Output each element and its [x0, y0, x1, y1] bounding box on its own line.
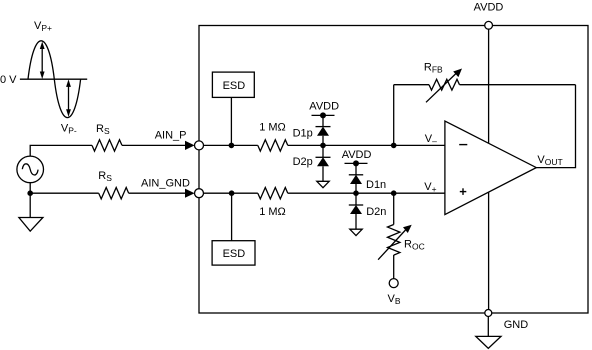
svg-text:VOUT: VOUT [537, 154, 562, 167]
ESD block 2 [212, 241, 255, 265]
amplitude arrow VP+ [40, 42, 45, 80]
wire AIN_P inside [204, 144, 258, 146]
svg-text:AIN_P: AIN_P [155, 130, 187, 142]
diode D1p [316, 127, 331, 136]
wire 1M to opamp V- [288, 144, 445, 146]
junction feedback V- [391, 143, 397, 149]
wire 1M to opamp V+ [288, 192, 445, 194]
ESD block 1 [212, 72, 254, 97]
op-amp minus sign [459, 144, 467, 146]
waveform axis [20, 78, 87, 80]
op-amp U1 [445, 121, 536, 215]
junction Dp [320, 143, 326, 149]
svg-text:RS: RS [96, 123, 110, 136]
junction AVDD Dn [353, 160, 359, 166]
AVDD rail Dn [345, 162, 368, 164]
resistor RS top [92, 140, 122, 151]
svg-text:D2n: D2n [366, 206, 386, 218]
source V1 [17, 156, 44, 183]
wire D1n to junction [355, 184, 357, 205]
wire Dp stem top [322, 115, 324, 126]
svg-text:V+: V+ [424, 181, 436, 194]
diode D2n [349, 205, 363, 214]
resistor RFB [429, 79, 460, 90]
junction ESD2 [229, 190, 235, 196]
wire ROC stem bottom [393, 255, 395, 279]
wire RS to AIN_GND [129, 192, 186, 194]
diode D2p [316, 157, 331, 166]
svg-text:D1p: D1p [293, 128, 313, 140]
node VB [389, 279, 398, 288]
wire ESD1 stem [230, 97, 232, 145]
IC boundary box [199, 26, 588, 314]
resistor 1 Mohm bottom [258, 188, 288, 199]
node AVDD [485, 21, 493, 29]
wire feedback top right [460, 84, 576, 86]
junction AVDD Dp [320, 112, 326, 118]
svg-text:VP+: VP+ [34, 20, 52, 33]
svg-text:V–: V– [425, 133, 437, 146]
junction ESD1 [229, 143, 235, 149]
wire D2n down [355, 214, 357, 229]
svg-text:AVDD: AVDD [309, 101, 339, 113]
diode D1n [349, 175, 363, 184]
arrow RFB [426, 69, 462, 103]
wire source top [30, 145, 92, 156]
node AIN_GND [195, 189, 204, 198]
arrow into AIN_GND [185, 189, 195, 198]
svg-text:AVDD: AVDD [342, 149, 372, 161]
wire source to RS bottom [30, 183, 99, 194]
ground arrow Dp [317, 181, 329, 187]
arrow ROC [378, 225, 412, 260]
svg-text:AVDD: AVDD [474, 2, 504, 14]
svg-text:VB: VB [388, 293, 401, 306]
svg-text:0 V: 0 V [0, 74, 17, 86]
wire feedback top left [394, 84, 429, 86]
svg-text:ROC: ROC [404, 239, 425, 252]
op-amp plus sign [460, 188, 467, 195]
wire ROC stem top [393, 193, 395, 224]
junction Dn [353, 190, 359, 196]
wire AIN_GND inside [204, 192, 258, 194]
svg-text:RFB: RFB [424, 62, 443, 75]
svg-text:D2p: D2p [293, 156, 313, 168]
wire D2p down [322, 166, 324, 181]
ground source [19, 193, 43, 231]
resistor 1 Mohm top [258, 140, 288, 151]
wire D1p to junction [322, 136, 324, 158]
wire Dn stem top [355, 163, 357, 174]
junction ROC [391, 190, 397, 196]
svg-text:AIN_GND: AIN_GND [141, 178, 190, 190]
svg-text:ESD: ESD [223, 80, 246, 92]
svg-text:D1n: D1n [366, 179, 386, 191]
wire feedback down to output [536, 85, 575, 168]
wire feedback up [393, 85, 395, 146]
junction source bottom [27, 190, 33, 196]
waveform sine curve [28, 41, 81, 118]
resistor ROC [388, 225, 400, 256]
node GND [485, 310, 492, 317]
wire ESD2 stem [231, 193, 233, 241]
node AIN_P [195, 141, 204, 150]
AVDD power line [488, 29, 490, 309]
ground GND [476, 317, 501, 349]
ground arrow Dn [350, 229, 362, 235]
resistor RS bottom [99, 188, 129, 199]
svg-text:1 MΩ: 1 MΩ [259, 122, 286, 134]
wire RS to AIN_P [122, 144, 186, 146]
svg-text:1 MΩ: 1 MΩ [259, 206, 286, 218]
AVDD rail Dp [312, 114, 335, 116]
svg-text:RS: RS [98, 170, 112, 183]
svg-text:ESD: ESD [223, 248, 246, 260]
arrow into AIN_P [185, 141, 195, 150]
svg-text:VP-: VP- [61, 123, 77, 136]
svg-text:GND: GND [504, 319, 529, 331]
amplitude arrow VP- [66, 79, 71, 116]
